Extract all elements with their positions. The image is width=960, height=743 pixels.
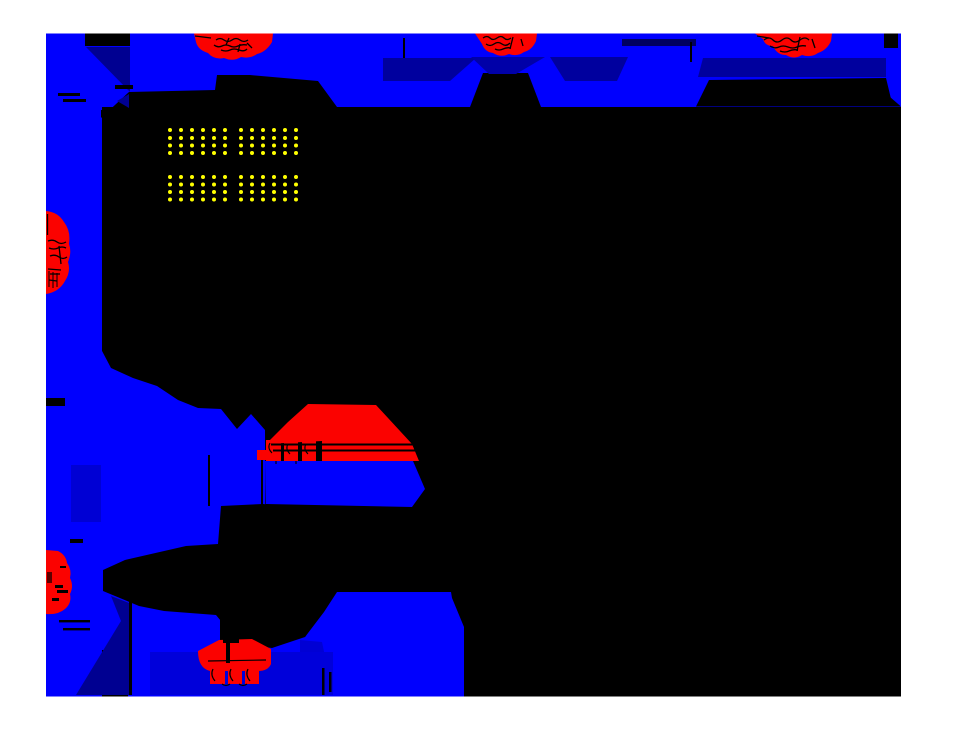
dark pour: navy wedge bottom-left bbox=[76, 596, 129, 695]
dark pour: navy triangle top-left bbox=[86, 47, 130, 92]
board cutout: black notch under top-middle pad bbox=[470, 73, 541, 107]
bottom copper pour: left rail column bbox=[46, 100, 102, 697]
top copper pad TP1 (top edge, left) bbox=[194, 34, 273, 60]
TP2 knockout text bbox=[483, 37, 523, 51]
via array block 2 (rows 177-200) bbox=[168, 175, 298, 179]
silk mark: dash on left column y400 bbox=[46, 398, 65, 406]
bottom copper pour: band under top-layer block bbox=[265, 461, 425, 507]
silk mark: dash pair y94 bbox=[58, 93, 80, 96]
PCB board outline (black substrate) bbox=[46, 34, 901, 697]
trace gap: vline at 691 bbox=[690, 42, 692, 62]
top copper pad TP2 (top edge, middle) bbox=[475, 34, 537, 56]
silk mark: dash y100 bbox=[63, 99, 86, 102]
top copper pad TP5 (left edge, lower) bbox=[46, 550, 72, 614]
TP1 knockout text bbox=[195, 36, 252, 52]
TP4 knockout marks bbox=[48, 214, 68, 288]
top copper pad TP3 (top edge, right) bbox=[755, 34, 832, 58]
trace gap: black bar in band bbox=[622, 39, 696, 46]
top copper pad TP6 (bottom) bbox=[198, 639, 271, 671]
bottom copper pour: top ground band bbox=[46, 34, 901, 108]
trace gap: vline x261 above fish bbox=[261, 456, 263, 506]
trace gap: vertical line x130 bbox=[129, 592, 132, 695]
dark pour: navy trapezoid C bbox=[550, 57, 628, 81]
top copper pad TP4 (left edge, upper) bbox=[46, 211, 70, 294]
U1 trace gaps (black lines across) bbox=[271, 444, 417, 446]
board cutout: right corner triangle bbox=[876, 85, 901, 107]
board cutout: black wedge in top band bbox=[101, 75, 337, 118]
silk mark: dashes y620 bbox=[59, 620, 90, 622]
TP6 knockout stem lines bbox=[223, 613, 239, 643]
dark pour: navy trapezoid A bbox=[383, 58, 476, 81]
board cutout: black dome right bbox=[696, 78, 899, 107]
dark pour: navy band right bbox=[698, 58, 886, 77]
U1 left lettering (red on black) bbox=[257, 440, 316, 461]
silk mark: tick lines bottom bbox=[322, 668, 325, 695]
TP5 knockout marks bbox=[47, 566, 68, 601]
dark pour: navy corner wedge bbox=[117, 94, 129, 108]
soldermask cutout: black notch top-left bbox=[85, 34, 130, 47]
copper void: black fish-shaped region bbox=[103, 504, 470, 648]
trace gap: vline x209 above fish bbox=[208, 455, 210, 506]
inner layer patch: bottom-left of blue block bbox=[300, 640, 333, 695]
dark pour: navy trapezoid B (under middle pad) bbox=[471, 57, 545, 74]
silk mark: dash above R5 bbox=[70, 539, 83, 543]
TP3 knockout text bbox=[757, 36, 815, 52]
via array block 1 (rows 130-153, cols 170-225) bbox=[168, 128, 298, 202]
top copper block U1 (middle) bbox=[266, 404, 419, 461]
inner layer patch: under bottom red pad bbox=[150, 652, 333, 695]
copper void: stem to bottom pad bbox=[220, 612, 239, 644]
silk mark: dash y85 bbox=[115, 85, 133, 89]
TP6 lettering (red with black gaps) bbox=[210, 666, 259, 684]
silk mark: dash y628 bbox=[63, 628, 90, 630]
bottom copper pour: bottom band and block bbox=[128, 592, 464, 697]
pad window: black square top-right bbox=[884, 34, 898, 49]
inner layer patch: medium blue column segment bbox=[71, 465, 101, 522]
trace gap: vline at 403 bbox=[403, 38, 405, 58]
bottom copper pour: lower-left region bbox=[101, 349, 266, 650]
